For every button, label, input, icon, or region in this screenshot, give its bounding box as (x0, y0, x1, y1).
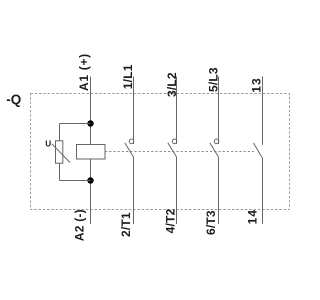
contact blade (125, 143, 134, 157)
svg-text:13: 13 (249, 77, 263, 93)
svg-text:U: U (45, 140, 51, 149)
svg-text:14: 14 (246, 209, 260, 225)
wire A1 upper (90, 77, 92, 145)
wire 3/L2 upper (176, 77, 178, 145)
svg-text:3/L2: 3/L2 (165, 72, 179, 97)
wire varistor upper lead (59, 124, 61, 141)
svg-text:5/L3: 5/L3 (207, 67, 221, 92)
enclosure dashed border -Q box (31, 94, 290, 210)
node junction top (87, 120, 93, 126)
svg-text:4/T2: 4/T2 (163, 208, 177, 233)
wire 13 upper (262, 77, 264, 145)
wire varistor branch top (60, 123, 91, 125)
svg-text:A1 (+): A1 (+) (77, 53, 91, 91)
wire varistor branch bottom (60, 180, 91, 182)
mechanical linkage dashed line (105, 151, 254, 153)
contact blade (210, 143, 219, 157)
contact fixed circle (214, 139, 219, 144)
coil U1 (77, 145, 106, 160)
main contact pole 3/L2-4/T2 (163, 72, 179, 233)
wire 6/T3 lower (218, 157, 220, 224)
node junction bottom (87, 177, 93, 183)
main contact pole 5/L3-6/T3 (204, 67, 221, 235)
svg-text:-Q: -Q (6, 92, 21, 107)
varistor RV1 diagonal (52, 144, 70, 163)
svg-text:1/L1: 1/L1 (121, 64, 135, 89)
contact blade (168, 143, 177, 157)
svg-text:2/T1: 2/T1 (119, 212, 133, 237)
wire 14 lower (262, 158, 264, 225)
wire 1/L1 upper (133, 77, 135, 145)
wire 4/T2 lower (176, 157, 178, 224)
svg-text:A2 (-): A2 (-) (73, 209, 87, 241)
contact fixed circle (129, 139, 134, 144)
wire 2/T1 lower (133, 157, 135, 224)
aux contact 13-14 (246, 77, 264, 225)
wire 5/L3 upper (218, 77, 220, 145)
svg-text:6/T3: 6/T3 (204, 210, 218, 235)
varistor RV1 body (56, 141, 63, 163)
contact fixed circle (172, 139, 177, 144)
main contact pole 1/L1-2/T1 (119, 64, 135, 237)
wire varistor lower lead (59, 163, 61, 180)
wire A2 lower (90, 159, 92, 224)
contact blade (254, 143, 263, 158)
